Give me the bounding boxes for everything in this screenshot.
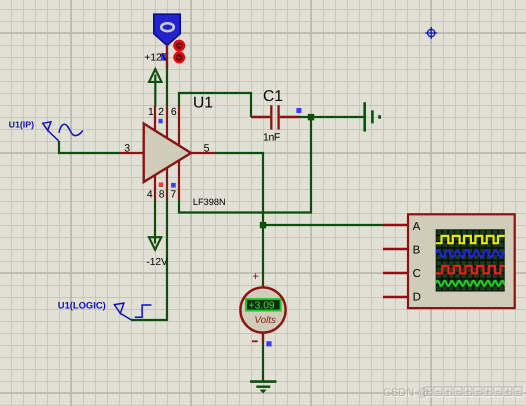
scope pin B — [383, 248, 407, 250]
probe square blue C1 — [296, 108, 301, 113]
watermark CSDN — [383, 387, 523, 400]
origin marker — [425, 27, 437, 39]
battery pin — [166, 45, 168, 68]
svg-text:C: C — [413, 268, 421, 280]
voltmeter plus pin — [262, 285, 264, 289]
label +12V — [144, 52, 168, 63]
wire voltmeter minus to ground — [262, 342, 264, 381]
U1 pin 6-7 line — [178, 106, 180, 200]
capacitor C1 left pin — [251, 116, 270, 118]
wire U1 pin 5 to node A — [215, 153, 263, 225]
scope pin A — [383, 224, 407, 226]
svg-text:U1: U1 — [193, 95, 213, 112]
junction C1 node — [308, 114, 314, 120]
generator U1(LOGIC) symbol — [114, 303, 131, 320]
svg-text:6: 6 — [171, 107, 177, 118]
svg-text:Volts: Volts — [254, 315, 276, 326]
voltmeter minus label — [252, 340, 258, 342]
svg-text:LF398N: LF398N — [193, 197, 226, 207]
U1 pin 5 — [190, 152, 216, 154]
svg-text:8: 8 — [159, 190, 165, 201]
scope pin C — [383, 272, 407, 274]
svg-text:+3.09: +3.09 — [249, 300, 275, 311]
wire node C1 down and left to U1 pin 7 — [179, 117, 311, 213]
waveform channel D green sine — [436, 281, 512, 286]
wire C1 right pin to sideways ground — [299, 116, 364, 118]
svg-text:1nF: 1nF — [263, 131, 280, 143]
oscilloscope body — [408, 214, 515, 308]
scope screen — [436, 229, 505, 291]
ground below voltmeter — [250, 382, 277, 394]
probe square blue voltmeter — [266, 341, 271, 346]
wire U1 pin 6 to C1 left pin — [179, 93, 251, 117]
svg-text:D: D — [413, 292, 421, 304]
capacitor C1 right plate — [277, 105, 279, 129]
generator U1(LOGIC) step glyph — [135, 305, 152, 317]
svg-text:B: B — [413, 245, 421, 257]
svg-text:7: 7 — [170, 190, 176, 201]
voltmeter body — [240, 287, 285, 332]
voltmeter minus pin — [262, 332, 264, 343]
svg-text:4: 4 — [147, 190, 153, 201]
svg-text:2: 2 — [158, 107, 164, 118]
red probe marker arrow right — [175, 41, 184, 50]
battery terminal symbol — [154, 14, 180, 45]
wire battery pin to U1 pin 2 — [166, 68, 168, 107]
svg-text:-12V: -12V — [146, 257, 168, 268]
scope pin D — [383, 296, 407, 298]
svg-text:C1: C1 — [263, 88, 283, 105]
svg-text:3: 3 — [124, 142, 130, 154]
waveform channel B blue sine — [436, 250, 508, 257]
wire sine generator to U1 pin 3 — [59, 141, 120, 153]
wire node A to scope channel A — [263, 224, 383, 226]
waveform channel A yellow square — [436, 236, 505, 243]
wire U1 pin 4 to -12V terminal — [154, 199, 156, 244]
probe square blue pin7 — [171, 183, 176, 188]
junction node A — [260, 222, 266, 228]
generator U1(IP) symbol — [43, 122, 59, 141]
wire U1 pin 8 to logic generator — [131, 199, 167, 320]
power terminal -12V arrow — [149, 237, 161, 250]
U1 pin 3 — [120, 152, 143, 154]
probe square blue pin2 — [159, 119, 163, 123]
probe square red pin8 — [159, 182, 164, 187]
svg-text:+: + — [252, 271, 259, 283]
generator U1(IP) sine glyph — [59, 124, 83, 135]
red probe marker arrow left — [175, 53, 184, 62]
svg-text:+12V: +12V — [144, 52, 168, 63]
capacitor C1 right pin — [280, 116, 299, 118]
op-amp U1 body — [144, 124, 191, 183]
svg-text:U1(LOGIC): U1(LOGIC) — [58, 300, 106, 311]
wire +12V terminal to U1 pin 1 — [154, 75, 156, 107]
svg-text:A: A — [413, 221, 421, 233]
voltmeter LCD display +3.09 — [246, 299, 281, 311]
ground sideways right of C1 — [365, 102, 380, 131]
U1 pin 1-4 line — [154, 106, 156, 200]
power terminal +12V arrow — [149, 69, 161, 82]
capacitor C1 left plate — [270, 105, 272, 129]
svg-text:5: 5 — [204, 142, 210, 154]
svg-text:1: 1 — [148, 107, 154, 118]
svg-text:U1(IP): U1(IP) — [9, 120, 34, 130]
svg-text:CSDN @: CSDN @ — [383, 387, 428, 399]
U1 pin 2-8 line — [166, 106, 168, 200]
waveform channel C red square — [436, 266, 507, 273]
wire node A down to voltmeter plus — [262, 225, 264, 286]
